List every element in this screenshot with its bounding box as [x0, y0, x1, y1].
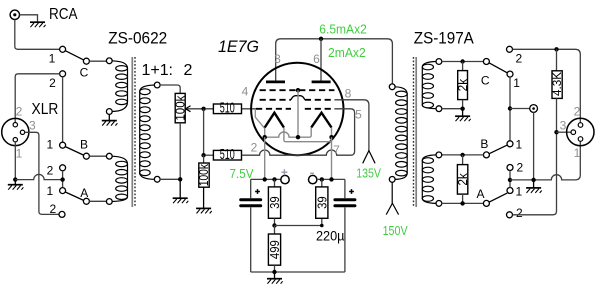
junction filament pin2	[263, 135, 267, 139]
resistor R2 510 leads	[206, 154, 214, 156]
capacitor C2 plates	[335, 200, 355, 206]
svg-text:39: 39	[314, 196, 329, 209]
wire pole A to T1	[89, 200, 106, 202]
label + testpoint	[281, 169, 287, 175]
connector J3 RCA output	[530, 105, 538, 113]
wire T1 secondary top to VR1	[160, 85, 180, 93]
potentiometer VR1 body	[175, 93, 185, 122]
transformer T2 primary terminal top	[389, 84, 395, 90]
switch S2C arm	[489, 63, 507, 73]
ground VR1	[173, 179, 189, 203]
junction W1 ground	[460, 107, 464, 111]
wire XLR pin3 to A2	[25, 132, 59, 214]
switch S2 contact A-1	[507, 188, 513, 194]
resistor R6 499 lead top	[274, 226, 276, 235]
wire filament rail right	[317, 178, 345, 180]
switch S1C arm	[65, 51, 83, 60]
svg-text:8: 8	[345, 86, 352, 100]
transformer T1 primary upper winding	[112, 61, 128, 112]
junction bottom rail	[272, 270, 276, 274]
capacitor C1 lead bottom	[250, 207, 252, 272]
wire cathode link	[275, 218, 322, 225]
wire C2 to XLR pin2	[15, 74, 59, 123]
svg-text:ZS-0622: ZS-0622	[108, 29, 167, 47]
svg-text:XLR: XLR	[32, 101, 59, 118]
wire pin 2 down	[264, 137, 266, 179]
svg-text:7: 7	[333, 143, 340, 157]
transformer T1 secondary winding	[140, 85, 155, 179]
label + C2	[349, 189, 354, 194]
junction wiper bus	[201, 107, 205, 111]
transformer T2 primary winding	[395, 87, 407, 180]
svg-text:1: 1	[574, 146, 581, 160]
switch S2 contact C-2	[507, 46, 513, 52]
V1 screen grid hop over suppressor	[291, 96, 305, 100]
junction rail R4	[272, 177, 276, 181]
tube V1 envelope	[251, 63, 343, 155]
transformer T1 primary upper terminal top	[106, 58, 112, 64]
wire XLR pin1 to ground	[14, 142, 16, 180]
junction secondary bottom	[178, 177, 182, 181]
svg-text:3: 3	[560, 118, 567, 132]
wire bottom rail	[251, 271, 345, 273]
svg-text:B: B	[80, 137, 88, 151]
resistor R8 4.3K body	[552, 71, 562, 99]
junction bus R2	[201, 153, 205, 157]
switch S1 contact C-2	[60, 71, 66, 77]
svg-text:3: 3	[29, 118, 36, 132]
wire W1 bottom	[442, 108, 463, 110]
wire RCA out shell to ground	[533, 112, 535, 179]
VR1 wiper arrow	[186, 106, 204, 112]
wire B2 to A1	[62, 171, 64, 188]
resistor R8 4.3K lead top	[556, 49, 558, 71]
wire filament left to pin7 node	[284, 128, 332, 142]
connector 135V fork	[363, 151, 375, 164]
label ratio 1+1:2	[142, 62, 193, 79]
svg-text:2k: 2k	[456, 172, 470, 185]
svg-text:2: 2	[574, 104, 581, 118]
resistor R7 2k lead top	[462, 62, 464, 71]
ground output	[526, 180, 542, 193]
V1 suppressor grid row	[260, 89, 335, 91]
svg-text:1: 1	[516, 184, 523, 198]
junction W2 bottom R9	[460, 201, 464, 205]
ground R3	[196, 187, 212, 213]
resistor R2 510 body	[213, 150, 241, 160]
svg-text:6: 6	[313, 52, 320, 66]
transformer T1 core	[132, 57, 135, 207]
svg-text:1: 1	[46, 184, 53, 198]
svg-text:1: 1	[513, 76, 520, 90]
wire W1 top	[442, 61, 484, 63]
wire filament common H1	[265, 128, 312, 138]
switch S2 contact A-2	[507, 212, 513, 218]
wire to RCA out	[510, 108, 530, 110]
switch S2C pole	[483, 59, 489, 65]
capacitor C1 plates	[241, 200, 261, 206]
junction W2 R9	[460, 153, 464, 157]
junction cathode link	[272, 223, 276, 227]
switch S2A arm	[489, 193, 507, 202]
svg-text:2: 2	[516, 206, 523, 220]
svg-text:100k: 100k	[197, 163, 211, 186]
wire A2' to XLR pin3	[513, 132, 557, 215]
wire grid5 to R2 with hops	[242, 109, 355, 155]
svg-text:2: 2	[16, 104, 23, 118]
svg-text:135V: 135V	[356, 166, 381, 181]
V1 screen grid row left	[260, 99, 291, 101]
svg-text:100k: 100k	[173, 95, 187, 121]
wire RCA tip to contact C1	[15, 20, 60, 50]
junction plate6 rail	[319, 37, 323, 41]
junction RCA out tap	[508, 106, 512, 110]
wire C1' to B1'	[509, 77, 511, 141]
resistor R7 lead bottom	[462, 100, 464, 109]
svg-text:1+1: 1+1	[142, 62, 169, 79]
wire RCA shell to ground	[20, 15, 38, 22]
wire suppressor tie	[297, 90, 299, 137]
transformer T2 secondary2 terminal bottom	[436, 201, 442, 207]
connector 150V fork	[386, 203, 398, 214]
wire W2 top	[442, 154, 484, 156]
V1 plate left	[266, 81, 285, 84]
switch S1A pole	[83, 198, 89, 204]
svg-text:510: 510	[220, 147, 235, 163]
svg-text:499: 499	[267, 240, 282, 259]
connector J1 RCA input	[10, 10, 19, 19]
wire plate 6	[320, 39, 322, 81]
svg-text:RCA: RCA	[49, 6, 78, 23]
transformer T2 secondary1 terminal top	[436, 59, 442, 65]
label - testpoint	[310, 172, 314, 174]
transformer T2 secondary2 terminal top	[436, 152, 442, 158]
switch S1A arm	[65, 192, 83, 200]
svg-text:1: 1	[46, 137, 53, 151]
junction suppressor filament	[296, 135, 300, 139]
resistor R8 lead bottom	[556, 98, 558, 132]
V1 plate right	[312, 81, 331, 84]
svg-text:A: A	[476, 187, 484, 201]
svg-text:ZS-197A: ZS-197A	[414, 29, 474, 47]
svg-text:2: 2	[184, 62, 193, 79]
connector J2 XLR input	[2, 118, 29, 145]
svg-text:1: 1	[49, 51, 56, 65]
svg-text:220µ: 220µ	[316, 229, 345, 244]
wire B2' to A1'	[509, 171, 511, 188]
svg-text:2: 2	[49, 202, 56, 216]
switch S2 contact C-1	[507, 71, 513, 77]
resistor R9 2k body	[457, 165, 467, 195]
junction W1 R7	[460, 59, 464, 63]
transformer T1 primary lower terminal top	[106, 153, 112, 159]
ground W1	[455, 109, 471, 122]
transformer T1 primary lower terminal bottom	[106, 199, 112, 205]
transformer T2 primary terminal bottom	[389, 177, 395, 183]
junction RCA out ground	[531, 178, 535, 182]
svg-text:1: 1	[516, 137, 523, 151]
transformer T1 secondary terminal top	[154, 82, 160, 88]
svg-text:2: 2	[517, 161, 524, 175]
test point minus	[309, 175, 317, 183]
wire C2' to XLR pin2	[513, 49, 581, 122]
transformer T2 secondary1 winding	[422, 62, 436, 109]
svg-text:5: 5	[355, 107, 362, 121]
wire pin 7 down	[331, 137, 333, 179]
resistor R7 2k body	[458, 71, 468, 100]
switch S2A pole	[483, 200, 489, 206]
transformer T2 secondary2 winding	[422, 155, 436, 204]
svg-text:3: 3	[274, 52, 281, 66]
wire bus vertical	[203, 109, 205, 155]
label + C1	[255, 189, 260, 194]
resistor R1 510 leads	[206, 108, 257, 110]
switch S1 contact B-2	[60, 165, 66, 171]
svg-text:4.3K: 4.3K	[550, 72, 564, 96]
svg-text:39: 39	[267, 196, 282, 209]
resistor R4 39 lead top	[274, 179, 276, 187]
ground RCA	[30, 22, 46, 27]
svg-text:6.5mAx2: 6.5mAx2	[319, 22, 367, 37]
svg-text:150V: 150V	[383, 223, 408, 238]
svg-text:B: B	[480, 137, 488, 151]
transformer T2 core	[414, 57, 417, 207]
resistor R1 510 body	[213, 104, 241, 114]
switch S1 contact A-2	[59, 211, 65, 217]
resistor R9 lead bottom	[462, 194, 464, 203]
svg-text:2: 2	[251, 140, 258, 154]
wire out ground rail to XLR pin1	[510, 141, 580, 180]
wire to XLR pin3	[557, 131, 571, 133]
resistor R4 lead bottom	[274, 218, 276, 225]
svg-text:2k: 2k	[456, 78, 470, 91]
resistor R6 499 body	[268, 234, 280, 265]
svg-text:A: A	[80, 186, 88, 200]
capacitor C1 lead top	[250, 179, 252, 198]
junction rail R5	[320, 177, 324, 181]
junction XLR pin3	[554, 130, 558, 134]
wire pole B to T1	[89, 155, 106, 157]
junction XLR ground	[13, 177, 17, 181]
junction R8 top	[554, 47, 558, 51]
resistor R9 2k lead top	[462, 155, 464, 165]
svg-text:C: C	[481, 73, 490, 87]
switch S2 contact B-1	[507, 141, 513, 147]
svg-text:2: 2	[516, 51, 523, 65]
switch S2 contact B-2	[507, 165, 513, 171]
V1 screen grid row right	[305, 99, 335, 101]
switch S1 contact A-1	[60, 188, 66, 194]
svg-text:7.5V: 7.5V	[230, 166, 254, 181]
transformer T1 primary upper terminal bottom	[106, 109, 112, 115]
V1 grid4 side rod	[255, 109, 264, 128]
switch S1 contact B-1	[60, 142, 66, 148]
ground main	[267, 272, 283, 284]
svg-text:2mAx2: 2mAx2	[328, 45, 366, 60]
switch S1B arm	[65, 147, 83, 156]
wire bus to R3	[203, 155, 205, 163]
svg-text:C: C	[80, 65, 89, 79]
junction rail pin2	[263, 177, 267, 181]
wire screen to pin 8 / 135V	[334, 100, 369, 151]
connector 150V stem	[391, 182, 393, 203]
wire ground rail to selector	[15, 174, 62, 179]
switch S2B arm	[489, 145, 507, 154]
resistor R5 39 body	[316, 187, 328, 218]
svg-text:1E7G: 1E7G	[218, 38, 259, 56]
resistor R6 lead bottom	[274, 265, 276, 272]
resistor R4 39 body	[268, 187, 280, 218]
junction suppressor center	[296, 88, 300, 92]
junction rail pin7	[329, 177, 333, 181]
junction selector ground	[60, 177, 64, 181]
switch S1B pole	[83, 153, 89, 159]
wire W2 bottom	[442, 202, 484, 204]
wire filament rail left	[251, 178, 281, 180]
V1 filament right	[311, 113, 331, 138]
V1 control grid right row	[305, 108, 335, 110]
resistor R3 100k body	[199, 163, 209, 187]
V1 filament left	[265, 113, 284, 137]
svg-text::: :	[169, 62, 173, 79]
junction out ground	[508, 178, 512, 182]
switch S1 contact C-1	[60, 46, 66, 52]
junction link right	[320, 224, 324, 228]
V1 control grid left row	[256, 108, 291, 110]
transformer T1 secondary terminal bottom	[154, 176, 160, 182]
svg-text:2: 2	[49, 76, 56, 90]
test point plus	[281, 175, 289, 183]
ground T1 primary	[102, 114, 118, 125]
resistor R5 39 lead top	[321, 179, 323, 187]
wire T1 secondary bottom	[160, 178, 180, 180]
wire VR1 bottom to ground	[179, 123, 181, 180]
svg-text:2: 2	[47, 163, 54, 177]
wire pole C to T1	[89, 60, 106, 62]
ground input common	[8, 180, 24, 190]
switch S1C pole	[83, 58, 89, 64]
capacitor C2 lead bottom	[344, 207, 346, 272]
svg-text:1: 1	[16, 146, 23, 160]
junction filament pin7	[329, 135, 333, 139]
transformer T2 secondary1 terminal bottom	[436, 106, 442, 112]
switch S2B pole	[483, 152, 489, 158]
svg-text:510: 510	[220, 101, 235, 117]
capacitor C2 lead top	[344, 179, 346, 198]
wire B+ top rail	[276, 39, 393, 84]
connector J4 XLR output	[567, 118, 594, 145]
transformer T1 primary lower winding	[112, 156, 128, 201]
wire C2 to B1	[62, 77, 64, 142]
svg-text:4: 4	[242, 84, 249, 98]
